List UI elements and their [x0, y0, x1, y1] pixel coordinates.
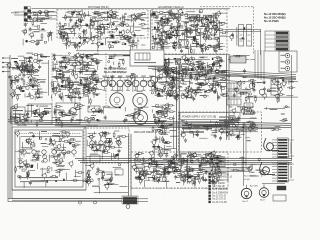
- svg-text:No.5 2SB407(B): No.5 2SB407(B): [212, 180, 229, 182]
- svg-text:PRE AMP: PRE AMP: [17, 124, 28, 127]
- svg-text:No.9 2SB405M: No.9 2SB405M: [212, 192, 228, 194]
- svg-text:No.7 SD-1B: No.7 SD-1B: [212, 186, 225, 188]
- svg-text:No.16 1T1-4B: No.16 1T1-4B: [212, 202, 227, 204]
- svg-text:AC 100V: AC 100V: [250, 185, 259, 188]
- svg-text:x2 (B): x2 (B): [244, 179, 250, 181]
- svg-text:No.3 2SB405: No.3 2SB405: [244, 176, 257, 178]
- svg-text:POWER SUPPLY VOLT (170-1B): POWER SUPPLY VOLT (170-1B): [182, 117, 216, 119]
- svg-text:AM AMP/DET 2SA49 x2: AM AMP/DET 2SA49 x2: [158, 6, 184, 9]
- svg-text:No.17: No.17: [260, 200, 266, 202]
- svg-text:No.6 2SD30: No.6 2SD30: [212, 183, 225, 185]
- svg-text:No.17: No.17: [243, 201, 249, 203]
- svg-text:TONE AMP: TONE AMP: [86, 125, 98, 128]
- svg-text:No.10 OTL-B: No.10 OTL-B: [212, 196, 226, 198]
- svg-text:No.8 2SB405M: No.8 2SB405M: [212, 189, 228, 191]
- svg-text:No.4 2SB405(B) x2: No.4 2SB405(B) x2: [212, 177, 233, 179]
- svg-text:No.2 2SB405(B): No.2 2SB405(B): [212, 174, 229, 176]
- svg-text:No.15 OTL-B: No.15 OTL-B: [212, 199, 226, 201]
- svg-text:No.12 2SC456(B): No.12 2SC456(B): [264, 12, 286, 16]
- svg-text:FM TUNER (FM IF): FM TUNER (FM IF): [88, 6, 109, 9]
- svg-text:MAIN AMP 2SB407 x2: MAIN AMP 2SB407 x2: [134, 131, 158, 134]
- svg-text:No.11 2SB405(B)x2: No.11 2SB405(B)x2: [104, 71, 127, 74]
- svg-text:No.13 2SC456(B): No.13 2SC456(B): [264, 16, 286, 20]
- svg-text:No.14 PH40: No.14 PH40: [264, 19, 279, 23]
